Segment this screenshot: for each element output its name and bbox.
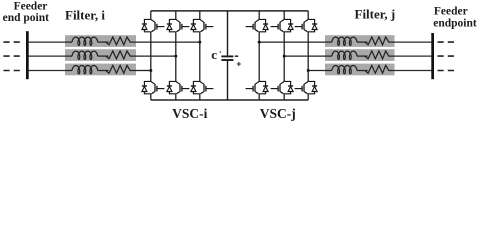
wire: filter i phase a to VSC-i leg 3 bbox=[136, 41, 200, 43]
wire: left busbar to filter i phase c bbox=[28, 70, 65, 72]
wire: VSC-j leg 1 to filter j phase a bbox=[259, 41, 325, 43]
node: VSC-i leg 3 phase a junction bbox=[198, 41, 201, 44]
node: VSC-i leg 1 phase c junction bbox=[149, 69, 152, 72]
label: minus polarity bbox=[235, 55, 238, 57]
IGBT+diode S7 (VSC-j leg1 top, mirrored) bbox=[246, 19, 269, 31]
svg-text:c: c bbox=[211, 47, 217, 62]
IGBT+diode S3 (VSC-i leg2 top) bbox=[167, 19, 190, 31]
wire: VSC-j leg 2 to filter j phase b bbox=[284, 55, 325, 57]
wire: VSC-i leg 1 bbox=[150, 11, 152, 100]
svg-text:Filter, i: Filter, i bbox=[65, 8, 105, 23]
capacitor C (DC link) bbox=[221, 11, 233, 100]
wire: left busbar to filter i phase b bbox=[28, 55, 65, 57]
node: VSC-j leg 3 phase c junction bbox=[307, 69, 310, 72]
filter j phase b box (L, R) bbox=[325, 49, 395, 61]
IGBT+diode S4 (VSC-i leg2 bottom) bbox=[167, 81, 190, 93]
node: VSC-j leg 2 phase b junction bbox=[283, 55, 286, 58]
wire: filter j to right busbar phase c bbox=[395, 70, 432, 72]
label: c prime dot bbox=[220, 51, 222, 53]
node: VSC-i leg 2 phase b junction bbox=[174, 55, 177, 58]
svg-text:Feeder: Feeder bbox=[14, 0, 48, 12]
wire: VSC-j leg 2 bbox=[283, 11, 285, 100]
svg-text:Filter, j: Filter, j bbox=[355, 7, 396, 22]
IGBT+diode S2 (VSC-i leg1 bottom) bbox=[142, 81, 165, 93]
filter i phase b box (L, R) bbox=[65, 49, 136, 61]
label: plus polarity bbox=[237, 62, 241, 66]
wire: left feeder dashed stubs phase c bbox=[3, 70, 19, 72]
IGBT+diode S10 (VSC-j leg2 bottom, mirrored) bbox=[271, 81, 294, 93]
svg-text:VSC-i: VSC-i bbox=[172, 106, 208, 121]
svg-text:VSC-j: VSC-j bbox=[260, 106, 296, 121]
filter i phase c box (L, R) bbox=[65, 64, 136, 76]
wire: right feeder dashed stubs phase c bbox=[438, 70, 455, 72]
IGBT+diode S12 (VSC-j leg3 bottom, mirrored) bbox=[295, 81, 318, 93]
wire: left busbar to filter i phase a bbox=[28, 41, 65, 43]
IGBT+diode S5 (VSC-i leg3 top) bbox=[191, 19, 214, 31]
wire: VSC-i leg 3 bbox=[199, 11, 201, 100]
busbar: left feeder end point bbox=[26, 31, 29, 79]
wire: right feeder dashed stubs phase b bbox=[438, 55, 455, 57]
IGBT+diode S6 (VSC-i leg3 bottom) bbox=[191, 81, 214, 93]
svg-text:end point: end point bbox=[3, 12, 50, 24]
svg-text:endpoint: endpoint bbox=[433, 17, 477, 29]
wire: VSC-j leg 3 to filter j phase c bbox=[308, 70, 325, 72]
wire: VSC-j leg 1 bbox=[258, 11, 260, 100]
wire: filter i phase b to VSC-i leg 2 bbox=[136, 55, 176, 57]
svg-text:Feeder: Feeder bbox=[434, 6, 468, 18]
wire: DC positive rail bbox=[151, 10, 308, 12]
wire: right feeder dashed stubs phase a bbox=[438, 41, 455, 43]
IGBT+diode S8 (VSC-j leg1 bottom, mirrored) bbox=[246, 81, 269, 93]
wire: left feeder dashed stubs phase a bbox=[3, 42, 454, 70]
wire: left feeder dashed stubs phase b bbox=[3, 55, 19, 57]
filter j phase a box (L, R) bbox=[325, 35, 395, 47]
IGBT+diode S1 (VSC-i leg1 top) bbox=[142, 19, 165, 31]
wire: filter i phase c to VSC-i leg 1 bbox=[136, 70, 151, 72]
IGBT+diode S9 (VSC-j leg2 top, mirrored) bbox=[271, 19, 294, 31]
wire: DC negative rail bbox=[151, 99, 308, 101]
busbar: right feeder endpoint bbox=[431, 33, 434, 79]
wire: filter j to right busbar phase b bbox=[395, 55, 432, 57]
wire: VSC-j leg 3 bbox=[307, 11, 309, 100]
filter j phase c box (L, R) bbox=[325, 64, 395, 76]
wire: filter j to right busbar phase a bbox=[395, 41, 432, 43]
IGBT+diode S11 (VSC-j leg3 top, mirrored) bbox=[295, 19, 318, 31]
filter i phase a box (L, R) bbox=[65, 35, 136, 47]
wire: VSC-i leg 2 bbox=[175, 11, 177, 100]
node: VSC-j leg 1 phase a junction bbox=[258, 41, 261, 44]
